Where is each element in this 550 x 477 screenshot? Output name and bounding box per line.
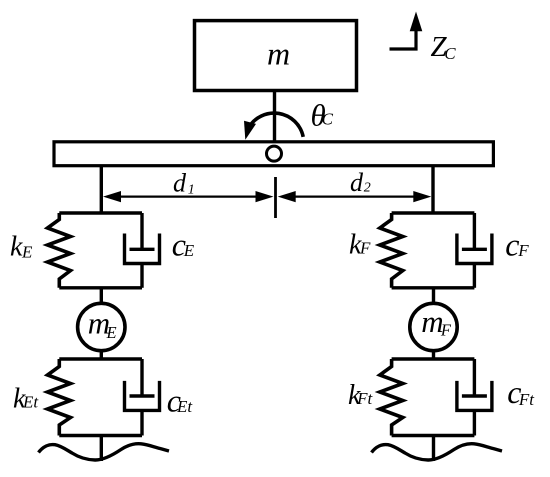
svg-text:F: F — [517, 241, 529, 260]
damper cE: rod — [140, 213, 143, 249]
tyre bracket lower-right: bottom bar — [392, 434, 475, 437]
mass m body rectangle — [195, 21, 357, 91]
damper cEt: cup — [125, 381, 160, 411]
tyre bracket lower-left: top bar — [59, 357, 142, 360]
svg-text:F: F — [440, 320, 452, 339]
link bracket to wheel mass mE — [100, 288, 103, 304]
spring kF zigzag — [380, 213, 403, 288]
svg-text:Et: Et — [22, 393, 39, 412]
damper cF: lower link — [473, 264, 476, 288]
wire rod from mass m to beam — [273, 91, 276, 142]
svg-text:Ft: Ft — [518, 390, 535, 409]
tyre bracket lower-right: top bar — [392, 357, 475, 360]
svg-text:2: 2 — [364, 181, 371, 196]
suspension bracket upper-right: bottom bar — [392, 286, 475, 289]
damper cE: cup — [125, 234, 160, 264]
svg-text:E: E — [106, 323, 117, 342]
svg-text:F: F — [359, 238, 371, 257]
damper cEt: piston plate — [130, 394, 155, 397]
damper cF: rod — [473, 213, 476, 249]
center tick between d1 and d2 — [274, 177, 277, 218]
beam (sprung bar) — [54, 142, 493, 166]
wheel mass mE circle — [78, 303, 125, 350]
ground stub left — [100, 436, 103, 462]
svg-text:C: C — [444, 44, 456, 63]
svg-text:Ft: Ft — [356, 389, 373, 408]
suspension bracket upper-left: bottom bar — [59, 286, 142, 289]
damper cF: piston plate — [462, 248, 487, 251]
svg-text:m: m — [267, 36, 290, 72]
axis ZC (L line with up arrow) — [390, 28, 417, 49]
damper cF: cup — [457, 234, 492, 264]
ground wave left — [39, 444, 170, 460]
pivot circle node C — [267, 146, 282, 161]
svg-text:d: d — [173, 169, 187, 198]
arc arrow thetaC — [248, 113, 303, 137]
ground wave right — [372, 444, 503, 460]
dimension line d2 — [290, 196, 420, 198]
damper cEt: lower link — [140, 410, 143, 435]
damper cFt: lower link — [473, 410, 476, 435]
damper cFt: rod — [473, 359, 476, 396]
damper cFt: piston plate — [462, 394, 487, 397]
tyre bracket lower-left: bottom bar — [59, 434, 142, 437]
svg-text:C: C — [322, 110, 334, 129]
damper cE: lower link — [140, 264, 143, 288]
hanger wire left — [100, 166, 103, 213]
svg-text:E: E — [21, 243, 33, 262]
spring kFt zigzag — [380, 359, 403, 436]
svg-text:E: E — [183, 241, 195, 260]
hanger wire right — [431, 166, 434, 213]
wheel mass mF circle — [410, 303, 457, 350]
ground stub right — [432, 436, 435, 462]
damper cFt: cup — [457, 381, 492, 411]
spring kE zigzag — [48, 213, 71, 288]
damper cE: piston plate — [130, 248, 155, 251]
svg-text:d: d — [350, 168, 364, 197]
link mE to lower bracket — [100, 351, 103, 359]
spring kEt zigzag — [48, 359, 71, 436]
suspension bracket upper-left: top bar — [59, 211, 142, 214]
svg-text:1: 1 — [188, 182, 195, 197]
link bracket to wheel mass mF — [432, 288, 435, 304]
svg-text:Et: Et — [176, 397, 193, 416]
suspension bracket upper-right: top bar — [392, 211, 475, 214]
link mF to lower bracket — [432, 351, 435, 359]
damper cEt: rod — [140, 359, 143, 396]
dimension line d1 — [115, 196, 263, 198]
